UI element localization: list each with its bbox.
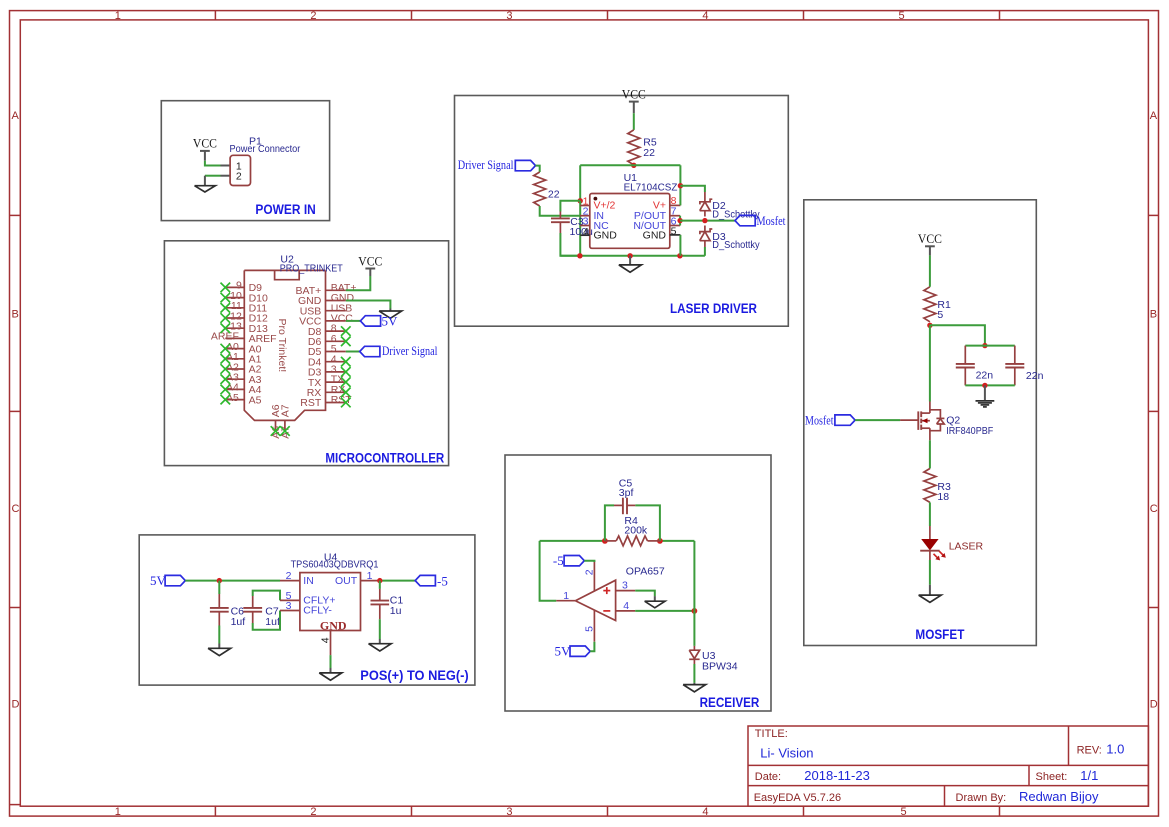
diode D3 reference designator xyxy=(712,231,726,243)
driver U1 pin number 7 xyxy=(671,206,677,218)
driver U1 pin number 5 xyxy=(671,225,677,237)
svg-text:200k: 200k xyxy=(624,525,648,537)
svg-text:2: 2 xyxy=(310,10,316,22)
diode D3 name D_Schottky xyxy=(712,239,760,251)
wire left vertical pin1 to bottom rail xyxy=(579,201,581,256)
svg-text:D: D xyxy=(12,699,20,711)
frame row ticks left xyxy=(10,215,21,804)
svg-text:LASER DRIVER: LASER DRIVER xyxy=(670,301,757,316)
LASER DRIVER section box xyxy=(455,96,789,327)
wire 5V flag to U4 IN xyxy=(185,580,280,582)
photodiode U3 BPW34 xyxy=(689,650,699,659)
net flag 5V (pos to neg) xyxy=(150,573,185,588)
driver U1 pin name V+/2 xyxy=(594,200,616,212)
op-amp OPA657 label xyxy=(626,565,665,577)
svg-text:POS(+) TO NEG(-): POS(+) TO NEG(-) xyxy=(360,668,468,683)
net flag Mosfet (mosfet section) xyxy=(805,412,855,427)
driver U1 polarity dot xyxy=(594,197,598,201)
svg-text:1: 1 xyxy=(115,806,121,818)
svg-text:A: A xyxy=(1150,110,1158,122)
svg-text:5: 5 xyxy=(584,626,596,632)
RECEIVER section box xyxy=(505,455,771,711)
svg-text:C: C xyxy=(12,503,20,515)
wire U3 to ground xyxy=(693,664,695,685)
transistor Q2 gate lead xyxy=(900,419,918,421)
wire ground stem (laser driver) xyxy=(629,256,631,265)
driver U1 reference designator xyxy=(624,172,638,184)
driver U1 pin number 2 xyxy=(583,206,589,218)
op-amp driver U1 body xyxy=(590,194,670,249)
svg-text:4: 4 xyxy=(583,226,589,238)
title block Sheet label xyxy=(1036,771,1068,783)
driver U1 name EL7104CSZ xyxy=(624,182,678,194)
driver U1 pin number 1 xyxy=(583,195,589,207)
title block title value Li- Vision xyxy=(760,745,813,760)
capacitor 22n right xyxy=(1005,364,1024,368)
svg-text:1uf: 1uf xyxy=(231,616,246,628)
ground (under U4) xyxy=(319,673,342,680)
connector P1 reference designator xyxy=(249,136,262,148)
net flag Driver Signal (laser driver) xyxy=(458,157,536,172)
svg-text:18: 18 xyxy=(937,491,949,503)
driver U1 right pin stubs xyxy=(670,205,681,225)
wire R3 to LED xyxy=(929,502,931,526)
converter U4 pin name IN xyxy=(303,575,314,587)
svg-text:LASER: LASER xyxy=(949,540,984,552)
op-amp plus symbol xyxy=(603,587,610,594)
resistor R4 value 200k xyxy=(624,525,648,537)
power symbol VCC (mosfet) xyxy=(918,232,942,246)
ground (under C1) xyxy=(369,644,392,651)
net flag Mosfet (laser driver) xyxy=(735,213,786,228)
svg-text:GND: GND xyxy=(643,230,667,242)
wire right vertical rail to pin 8 xyxy=(679,165,681,205)
svg-text:IRF840PBF: IRF840PBF xyxy=(946,425,993,437)
title block REV label xyxy=(1077,744,1102,756)
wire C5 loop left xyxy=(605,505,614,541)
capacitor C6 reference designator xyxy=(231,606,245,618)
diode D2 reference designator xyxy=(712,200,726,212)
frame row letters left xyxy=(12,110,20,710)
microcontroller U2 right pin names xyxy=(296,285,322,409)
converter U4 pin name OUT xyxy=(335,575,358,587)
svg-text:GND: GND xyxy=(594,230,618,242)
wire Driver Signal flag to resistor 22 xyxy=(536,166,540,172)
transistor Q2 drain lead xyxy=(929,402,931,414)
node junction diode branch xyxy=(678,183,683,188)
op-amp pin 5 stub xyxy=(593,610,595,641)
driver U1 pin name IN xyxy=(594,210,605,222)
converter U4 pin number 3 xyxy=(286,600,292,612)
node junction R4 right xyxy=(657,538,663,544)
svg-text:B: B xyxy=(1150,308,1157,320)
wire node down to U3 xyxy=(693,611,695,646)
driver U1 pin number 3 xyxy=(583,215,589,227)
wire VCC to P1 pin 1 xyxy=(205,151,230,166)
microcontroller U2 right pin stubs xyxy=(326,290,346,402)
title block Sheet value 1/1 xyxy=(1080,768,1098,783)
diode D3 D_Schottky xyxy=(700,229,713,241)
microcontroller U2 reference designator xyxy=(280,254,294,266)
svg-text:5: 5 xyxy=(900,806,906,818)
wire drain vertical xyxy=(929,325,931,401)
driver U1 pin 4 stub xyxy=(580,234,590,236)
wire GND pin to ground xyxy=(346,301,391,312)
node junction D3 bottom xyxy=(0,0,1,1)
svg-text:MOSFET: MOSFET xyxy=(915,627,965,642)
converter U4 name TPS60403QDBVRQ1 xyxy=(291,559,379,571)
capacitor C1 xyxy=(371,589,390,619)
svg-text:C: C xyxy=(1150,503,1158,515)
op-amp pin number 5 xyxy=(584,626,596,632)
svg-text:3pf: 3pf xyxy=(619,487,634,499)
capacitor C6 xyxy=(210,594,229,626)
svg-text:4: 4 xyxy=(320,637,332,643)
converter U4 pin number 1 xyxy=(367,570,373,582)
capacitor C3 reference designator xyxy=(570,216,584,228)
MICROCONTROLLER section box xyxy=(164,241,448,466)
driver U1 pin name GND right xyxy=(643,230,667,242)
power symbol VCC (laser driver) xyxy=(622,87,646,101)
POS TO NEG section box xyxy=(139,535,475,685)
title block row dividers xyxy=(748,765,1148,785)
microcontroller U2 body xyxy=(244,270,325,420)
svg-text:5V: 5V xyxy=(555,643,572,658)
microcontroller U2 bottom pin numbers A6 A7 xyxy=(270,426,291,439)
node junction bottom rail center xyxy=(627,253,632,258)
MOSFET section box xyxy=(804,200,1037,646)
svg-text:Driver Signal: Driver Signal xyxy=(382,343,438,358)
svg-text:5V: 5V xyxy=(150,573,167,588)
diode D3 leads xyxy=(704,226,706,248)
wire capacitor rail top xyxy=(965,345,1015,347)
title block Date value 2018-11-23 xyxy=(804,768,870,783)
LED laser net label LASER xyxy=(949,540,984,552)
svg-text:Mosfet: Mosfet xyxy=(757,213,786,228)
node junction C6 top xyxy=(217,578,222,583)
wire capacitor rail bottom xyxy=(965,384,1015,386)
POS TO NEG section title xyxy=(360,668,468,683)
resistor R5 xyxy=(628,130,640,165)
capacitor C5 reference designator xyxy=(619,478,633,490)
node junction photodiode xyxy=(692,608,698,614)
microcontroller U2 bottom pin names A6 A7 xyxy=(270,404,291,417)
wire top rail xyxy=(580,164,680,166)
svg-text:4: 4 xyxy=(623,600,629,612)
svg-text:A: A xyxy=(12,110,20,122)
microcontroller U2 name PRO_TRINKET xyxy=(280,262,343,274)
diode D2 leads xyxy=(704,192,706,217)
converter U4 pin number 2 xyxy=(286,570,292,582)
capacitor C7 xyxy=(243,596,262,623)
wire R1 node to capacitor branch xyxy=(930,325,985,345)
converter U4 pin stub GND xyxy=(330,631,332,656)
op-amp pin number 2 xyxy=(584,569,596,575)
resistor R1 reference designator xyxy=(937,299,951,311)
resistor R4 leads xyxy=(605,540,660,542)
capacitor 22n right leads xyxy=(1014,346,1016,386)
svg-text:Redwan Bijoy: Redwan Bijoy xyxy=(1019,789,1099,804)
svg-text:1: 1 xyxy=(563,590,569,602)
svg-text:1: 1 xyxy=(367,570,373,582)
svg-text:MICROCONTROLLER: MICROCONTROLLER xyxy=(325,450,444,465)
RECEIVER section title xyxy=(700,695,760,710)
op-amp U5 OPA657 body xyxy=(575,580,615,620)
frame column numbers top xyxy=(115,10,905,22)
wire C1 top lead xyxy=(379,581,381,589)
svg-text:PRO_TRINKET: PRO_TRINKET xyxy=(280,262,343,274)
svg-text:VCC: VCC xyxy=(918,232,942,246)
photodiode U3 name BPW34 xyxy=(702,661,738,673)
svg-text:5: 5 xyxy=(937,309,943,321)
svg-text:Power Connector: Power Connector xyxy=(230,143,301,155)
svg-text:2: 2 xyxy=(236,171,242,183)
wire resistor 22 to pin 2 IN xyxy=(540,206,580,216)
capacitor C3 value 100u xyxy=(570,226,594,238)
svg-text:D_Schottky: D_Schottky xyxy=(712,239,760,251)
wire feedback rail xyxy=(540,540,695,542)
wire C7 bottom loop to CFLY- xyxy=(253,611,280,630)
title block Drawn By label xyxy=(956,792,1007,804)
wire C6 bottom to ground xyxy=(218,626,220,649)
MICROCONTROLLER section title xyxy=(325,450,444,465)
ground (under C6) xyxy=(208,648,231,655)
power symbol VCC (power in) xyxy=(193,137,217,151)
svg-text:CFLY-: CFLY- xyxy=(303,605,332,617)
svg-text:RECEIVER: RECEIVER xyxy=(700,695,760,710)
ground (microcontroller) xyxy=(379,311,402,318)
op-amp pin number 4 xyxy=(623,600,629,612)
svg-text:22n: 22n xyxy=(1026,370,1044,382)
svg-text:22: 22 xyxy=(643,147,655,159)
svg-text:2: 2 xyxy=(584,569,596,575)
connector P1 body xyxy=(230,155,250,185)
op-amp pin 1 stub xyxy=(556,600,575,602)
net flag -5 (pos to neg) xyxy=(415,574,448,589)
wire -5 flag to pin 2 xyxy=(584,561,594,562)
svg-text:EL7104CSZ: EL7104CSZ xyxy=(624,182,678,194)
wire bottom rail xyxy=(560,255,705,257)
svg-text:-5: -5 xyxy=(437,574,448,589)
wire U4 GND pin to ground xyxy=(330,655,332,673)
wire VCC to R5 xyxy=(633,102,635,130)
resistor R3 value 18 xyxy=(937,491,949,503)
frame column numbers bottom xyxy=(115,806,907,818)
capacitor 22n left leads xyxy=(964,346,966,386)
svg-text:TITLE:: TITLE: xyxy=(755,728,788,740)
svg-text:5: 5 xyxy=(898,10,904,22)
svg-text:D: D xyxy=(1150,699,1158,711)
frame column ticks bottom xyxy=(215,806,999,816)
title block EasyEDA version xyxy=(754,792,841,804)
svg-text:Sheet:: Sheet: xyxy=(1036,771,1068,783)
microcontroller U2 left pin names xyxy=(249,282,277,406)
svg-text:BPW34: BPW34 xyxy=(702,661,738,673)
node junction N/OUT xyxy=(677,218,682,223)
converter U4 pin number 4 xyxy=(320,637,332,643)
title block REV value 1.0 xyxy=(1106,742,1124,757)
ground (op-amp pin 3) xyxy=(645,601,665,608)
ground (mosfet) xyxy=(919,595,942,602)
wire BAT+ to VCC xyxy=(346,269,371,291)
resistor R5 value 22 xyxy=(643,147,655,159)
resistor R5 reference designator xyxy=(643,137,657,149)
net flag Driver Signal (microcontroller) xyxy=(360,343,438,358)
diode D2 D_Schottky xyxy=(700,199,713,211)
svg-text:Date:: Date: xyxy=(755,771,781,783)
svg-text:3: 3 xyxy=(506,806,512,818)
svg-text:22n: 22n xyxy=(976,369,994,381)
driver U1 pin name GND left xyxy=(594,230,618,242)
wire right vertical rail to node xyxy=(693,541,695,611)
net flag 5V (receiver) xyxy=(555,643,591,658)
svg-text:-5: -5 xyxy=(553,553,564,568)
resistor R2 value 22 xyxy=(548,189,560,201)
svg-text:VCC: VCC xyxy=(358,254,382,268)
svg-text:Drawn By:: Drawn By: xyxy=(956,792,1007,804)
photodiode U3 leads xyxy=(693,646,695,664)
svg-text:4: 4 xyxy=(702,10,708,22)
wire C5 loop right xyxy=(635,505,660,541)
capacitor 22n left xyxy=(956,364,975,368)
title block TITLE label xyxy=(755,728,788,740)
capacitor C5 leads xyxy=(614,504,635,506)
driver U1 pin name V+ xyxy=(653,200,666,212)
diode D2 name D_Schottky xyxy=(712,209,760,221)
title block Date label xyxy=(755,771,781,783)
resistor R4 xyxy=(616,536,647,546)
capacitor C5 value 3pf xyxy=(619,487,634,499)
connector P1 name Power Connector xyxy=(230,143,301,155)
svg-text:3: 3 xyxy=(622,580,628,592)
converter U4 body xyxy=(300,573,361,631)
driver U1 pin number 4 xyxy=(583,226,589,238)
resistor R3 xyxy=(924,469,936,503)
LASER DRIVER section title xyxy=(670,301,757,316)
svg-text:A7: A7 xyxy=(279,404,291,417)
ground (power in) xyxy=(195,186,216,192)
svg-text:2018-11-23: 2018-11-23 xyxy=(804,768,870,783)
converter U4 pin name GND xyxy=(320,618,347,632)
transistor Q2 reference designator xyxy=(946,414,960,426)
LED laser anode lead xyxy=(929,526,931,539)
wire pin 1 node to C3 top xyxy=(560,201,580,212)
driver U1 pin name P/OUT xyxy=(634,210,667,222)
title block column dividers xyxy=(945,726,1069,806)
converter U4 pin stubs left xyxy=(280,581,300,611)
node junction R5 to rail xyxy=(631,163,636,168)
driver U1 pin name N/OUT xyxy=(633,220,666,232)
node junction bottom rail right xyxy=(677,253,682,258)
wire OUT to -5 flag xyxy=(378,580,415,582)
driver U1 pin name NC xyxy=(594,220,610,232)
resistor R3 reference designator xyxy=(937,481,951,493)
resistor R1 xyxy=(924,287,936,322)
svg-text:4: 4 xyxy=(702,806,708,818)
op-amp pin 2 stub xyxy=(593,561,595,592)
wire pin 4 to photodiode node xyxy=(635,610,694,612)
POWER IN section box xyxy=(161,101,329,221)
ground (laser driver) xyxy=(619,265,642,272)
wire left vertical to pin 1 xyxy=(579,165,581,201)
wire LED to ground xyxy=(929,551,931,595)
POWER IN section title xyxy=(255,202,315,217)
wire D3 to bottom rail xyxy=(704,247,706,256)
svg-text:IN: IN xyxy=(303,575,314,587)
svg-text:22: 22 xyxy=(548,189,560,201)
svg-text:5V: 5V xyxy=(382,313,399,328)
svg-text:OUT: OUT xyxy=(335,575,358,587)
capacitor C5 xyxy=(623,498,627,515)
wire pin 5 to bottom rail xyxy=(679,235,681,256)
capacitor C1 reference designator xyxy=(390,594,404,606)
svg-text:Driver Signal: Driver Signal xyxy=(458,157,514,172)
capacitor 22n right value xyxy=(1026,370,1044,382)
op-amp pin 3 stub xyxy=(616,590,636,592)
svg-text:1/1: 1/1 xyxy=(1080,768,1098,783)
svg-text:Li- Vision: Li- Vision xyxy=(760,745,813,760)
wire pin7 pin6 tie xyxy=(679,216,681,226)
net flag 5V (microcontroller) xyxy=(360,313,398,328)
wire C1 bottom to ground xyxy=(379,619,381,644)
svg-text:VCC: VCC xyxy=(193,137,217,151)
svg-text:REV:: REV: xyxy=(1077,744,1102,756)
svg-text:TPS60403QDBVRQ1: TPS60403QDBVRQ1 xyxy=(291,559,379,571)
svg-text:2: 2 xyxy=(286,570,292,582)
wire D5 pin to Driver Signal flag xyxy=(346,351,360,353)
node junction pin 1 V+/2 xyxy=(578,198,583,203)
connector P1 pin number 1 xyxy=(236,160,242,172)
node junction bottom rail left xyxy=(577,253,582,258)
converter U4 reference designator xyxy=(324,551,338,563)
wire capacitor ground stem xyxy=(984,385,986,401)
no-connect X marks U2 right pins xyxy=(341,326,351,407)
svg-text:2: 2 xyxy=(310,806,316,818)
microcontroller U2 label Pro Trinket! xyxy=(276,319,288,373)
wire Mosfet flag to gate xyxy=(855,419,900,421)
svg-text:GND: GND xyxy=(320,618,347,632)
converter U4 pin stub OUT xyxy=(361,580,378,582)
transistor Q2 value IRF840PBF xyxy=(946,425,993,437)
node junction diodes mid xyxy=(702,218,707,223)
capacitor C6 value 1uf xyxy=(231,616,246,628)
capacitor C3 xyxy=(551,212,570,234)
resistor R1 value 5 xyxy=(937,309,943,321)
connector P1 pin number 2 xyxy=(236,171,242,183)
photodiode U3 reference designator xyxy=(702,650,716,662)
node junction R1 drain xyxy=(927,323,932,328)
driver U1 left pin stubs xyxy=(580,206,590,226)
capacitor C7 reference designator xyxy=(265,606,279,618)
wire source to R3 xyxy=(929,440,931,468)
driver U1 pin number 6 xyxy=(671,215,677,227)
driver U1 pin number 8 xyxy=(671,195,677,207)
no-connect X marks U2 bottom pins xyxy=(271,426,290,436)
power symbol VCC (microcontroller) xyxy=(358,254,382,268)
op-amp pin number 1 xyxy=(563,590,569,602)
svg-text:5: 5 xyxy=(671,225,677,237)
svg-text:3: 3 xyxy=(286,600,292,612)
wire 5V flag to pin 5 xyxy=(590,642,594,652)
svg-text:RST: RST xyxy=(300,397,322,409)
svg-text:POWER IN: POWER IN xyxy=(255,202,315,217)
net flag -5 (receiver) xyxy=(553,553,584,568)
svg-text:Pro Trinket!: Pro Trinket! xyxy=(276,319,288,373)
capacitor C1 value 1u xyxy=(390,605,402,617)
wire C6 top lead xyxy=(218,581,220,594)
wire VCC to R1 xyxy=(929,246,931,286)
converter U4 pin name CFLY+ xyxy=(303,595,335,607)
